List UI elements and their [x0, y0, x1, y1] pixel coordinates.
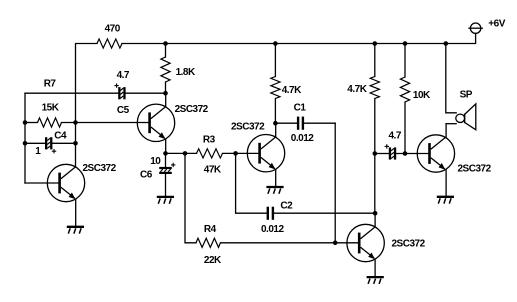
svg-text:C1: C1 — [294, 102, 307, 113]
svg-text:4.7K: 4.7K — [347, 84, 367, 95]
node rail-10K — [403, 41, 408, 46]
wire collector branch x75.5 — [75, 123, 77, 167]
ground Q1 — [67, 227, 84, 234]
resistor 1.8K — [161, 44, 196, 94]
node Q2 collector — [163, 91, 168, 96]
svg-text:22K: 22K — [204, 255, 222, 266]
transistor Q2 2SC372 — [137, 104, 208, 141]
node 10K bottom / Q5 base — [403, 151, 408, 156]
svg-text:47K: 47K — [204, 164, 222, 175]
ground Q5 — [437, 197, 454, 204]
svg-text:2SC372: 2SC372 — [458, 164, 492, 175]
svg-text:C4: C4 — [54, 131, 67, 142]
node rail-4.7K-right — [373, 41, 378, 46]
wire R7 row to C5 — [25, 92, 119, 94]
wire C5 to Q2 collector node — [125, 92, 165, 94]
transistor Q1 2SC372 — [47, 163, 116, 202]
resistor 4.7K left — [271, 44, 302, 124]
svg-text:470: 470 — [105, 23, 121, 34]
svg-text:R7: R7 — [44, 78, 57, 89]
svg-text:10: 10 — [150, 156, 161, 167]
svg-text:4.7K: 4.7K — [282, 85, 302, 96]
node Q4 collector / C2 right — [373, 211, 378, 216]
node C4 left — [23, 141, 28, 146]
wire Q2 collector — [165, 93, 167, 106]
svg-text:4.7: 4.7 — [389, 130, 402, 141]
node R4 branch — [183, 151, 188, 156]
svg-text:R3: R3 — [203, 135, 216, 146]
svg-text:C6: C6 — [140, 169, 153, 180]
node Q3 collector / C1 — [273, 121, 278, 126]
node rail-1.8K — [163, 41, 168, 46]
wire Q2 emitter — [165, 139, 167, 153]
resistor 470 — [97, 23, 122, 48]
wire speaker bottom stub — [446, 123, 456, 125]
capacitor C4 1 — [25, 131, 76, 158]
wire 4.7K-bottom to C2 node — [374, 154, 376, 214]
svg-text:4.7: 4.7 — [117, 70, 130, 81]
wire Q1 base — [25, 182, 58, 184]
wire left branch vertical — [24, 93, 26, 183]
ground Q4 — [367, 277, 384, 284]
terminal +6V — [468, 18, 505, 33]
svg-text:0.012: 0.012 — [291, 133, 314, 144]
svg-text:2SC372: 2SC372 — [392, 238, 426, 249]
wire Q3 collector — [275, 123, 277, 137]
wire 15K to Q2 base — [62, 122, 149, 124]
wire R4 to Q4 base — [221, 242, 359, 244]
wire speaker top feed — [446, 44, 456, 113]
svg-text:R4: R4 — [204, 224, 217, 235]
capacitor C5 4.7 — [114, 70, 130, 116]
wire R3 to Q3 base — [223, 152, 259, 154]
svg-text:1.8K: 1.8K — [176, 67, 196, 78]
resistor R7 15K — [25, 102, 62, 127]
node 15K right — [73, 120, 78, 125]
wire Q3 emitter to ground — [275, 170, 277, 187]
wire top supply rail left segment — [76, 44, 98, 123]
svg-text:15K: 15K — [42, 102, 60, 113]
node right 4.7K bottom — [373, 151, 378, 156]
svg-text:10K: 10K — [413, 90, 431, 101]
resistor 4.7K right — [347, 44, 379, 154]
wire Q5 collector up to speaker — [445, 124, 447, 138]
ground Q3 — [266, 187, 283, 194]
wire C1 down branch — [334, 123, 336, 243]
capacitor 4.7 near Q5 — [375, 130, 429, 159]
resistor 10K — [400, 44, 431, 154]
speaker SP — [456, 89, 476, 130]
wire top supply rail right segment — [122, 33, 476, 43]
node Q3 base — [233, 151, 238, 156]
svg-text:2SC372: 2SC372 — [175, 104, 209, 115]
transistor Q3 2SC372 — [231, 121, 285, 172]
capacitor C2 0.012 — [261, 201, 375, 235]
svg-text:0.012: 0.012 — [261, 224, 284, 235]
svg-text:C5: C5 — [117, 105, 130, 116]
node R4 / C1 branch / Q4 base — [333, 241, 338, 246]
svg-text:SP: SP — [460, 89, 473, 100]
wire Q1 emitter to ground — [75, 199, 77, 226]
svg-text:+6V: +6V — [488, 18, 505, 29]
capacitor C6 10 — [140, 153, 175, 195]
capacitor C1 0.012 — [275, 102, 335, 144]
transistor Q4 2SC372 — [347, 224, 426, 261]
node rail-4.7K-left — [273, 41, 278, 46]
node Q2 emitter / C6 — [163, 151, 168, 156]
resistor R3 47K — [197, 135, 223, 176]
wire Q4 emitter to ground — [374, 259, 376, 276]
ground C6 — [157, 197, 174, 204]
svg-text:2SC372: 2SC372 — [83, 163, 117, 174]
svg-text:C2: C2 — [280, 201, 293, 212]
svg-text:2SC372: 2SC372 — [231, 121, 265, 132]
wire emitter row to R3 — [166, 152, 197, 154]
node rail-speaker — [444, 41, 449, 46]
wire Q3 base down to C2 — [236, 153, 267, 213]
resistor R4 22K — [196, 224, 222, 266]
wire Q5 emitter to ground — [445, 170, 447, 196]
wire R4 left branch — [185, 153, 196, 242]
transistor Q5 2SC372 — [417, 135, 491, 175]
wire Q4 collector — [374, 213, 376, 227]
node 15K left — [23, 120, 28, 125]
node C4 right — [73, 141, 78, 146]
